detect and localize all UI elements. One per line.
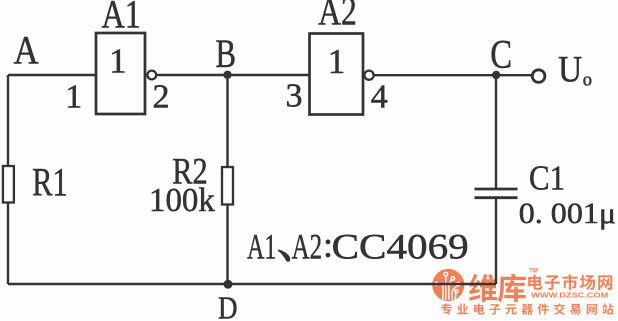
svg-text:4: 4: [371, 79, 388, 116]
svg-text:A2: A2: [318, 0, 357, 33]
svg-text:o: o: [583, 71, 592, 91]
svg-text:C1: C1: [529, 159, 565, 198]
svg-text:CC4069: CC4069: [332, 227, 469, 267]
svg-text:C: C: [490, 32, 512, 77]
svg-text:100k: 100k: [149, 182, 215, 219]
svg-text:3: 3: [286, 78, 303, 115]
svg-text:A1: A1: [247, 227, 276, 267]
svg-text:D: D: [218, 290, 238, 321]
svg-text:A2: A2: [292, 227, 323, 267]
svg-text:1: 1: [328, 42, 346, 81]
svg-text:A1: A1: [102, 0, 141, 37]
svg-text:TM: TM: [529, 268, 538, 274]
svg-text:WWW.DZSC.COM: WWW.DZSC.COM: [531, 291, 608, 300]
svg-text:1: 1: [109, 41, 127, 80]
svg-text:B: B: [216, 31, 237, 76]
svg-text:2: 2: [153, 79, 170, 116]
svg-text:0. 001μ: 0. 001μ: [519, 197, 616, 230]
svg-text:U: U: [558, 50, 582, 91]
svg-text:A: A: [14, 28, 39, 73]
svg-text:R1: R1: [32, 159, 68, 204]
svg-text:1: 1: [65, 79, 82, 116]
